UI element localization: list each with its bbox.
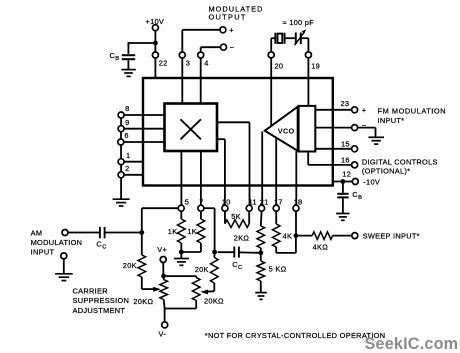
resistor 1K (B)	[197, 219, 205, 243]
wire chain pins 9-6	[120, 132, 122, 139]
capacitor CC (mid)	[218, 251, 234, 253]
resistor 5K	[225, 220, 249, 228]
wire +10V to pin22	[154, 31, 156, 52]
wire out- to pin 4	[201, 46, 221, 48]
svg-text:6: 6	[124, 131, 128, 140]
wire crystal to variable capacitor	[285, 37, 296, 39]
pin 22 terminal	[152, 52, 158, 58]
svg-text:15: 15	[341, 140, 350, 149]
wire pin18 down	[295, 211, 297, 235]
wire pin21 down	[260, 211, 263, 226]
svg-text:1K: 1K	[187, 227, 197, 236]
wire pin5 down	[180, 211, 182, 219]
svg-text:8: 8	[125, 104, 129, 113]
wire pin11 down	[248, 211, 250, 224]
crystal Y1	[274, 33, 276, 44]
resistor 20K (right)	[213, 252, 215, 258]
wire VCO corner to pin 18	[295, 151, 297, 205]
wire pin7 down	[200, 211, 202, 219]
svg-text:2KΩ: 2KΩ	[234, 234, 250, 243]
svg-text:V+: V+	[157, 245, 167, 254]
wire multiplier to pin 7	[200, 151, 202, 205]
resistor 4K&#937; (sweep)	[312, 232, 332, 240]
wiper arrow into left pot	[142, 288, 154, 290]
ground (1K)	[174, 259, 189, 266]
capacitor CB (left)	[122, 54, 135, 56]
potentiometer 20K&#937; (left)	[163, 276, 165, 280]
wire AM return to ground	[63, 259, 65, 274]
ground (left chain)	[113, 199, 130, 206]
svg-text:4KΩ: 4KΩ	[313, 243, 329, 252]
pin 3 terminal	[179, 52, 185, 58]
wire CC to junction	[105, 232, 142, 234]
V- terminal	[162, 322, 168, 328]
svg-text:12: 12	[342, 169, 351, 178]
multiplier block	[165, 104, 218, 152]
wire pin 12	[333, 181, 353, 183]
VCO output block	[299, 106, 316, 152]
svg-text:SWEEP INPUT*: SWEEP INPUT*	[363, 232, 420, 241]
FM minus terminal	[352, 125, 358, 131]
svg-text:20KΩ: 20KΩ	[133, 297, 153, 306]
svg-text:≈ 100 pF: ≈ 100 pF	[283, 18, 315, 27]
wire pin 6 to multiplier	[124, 141, 165, 143]
wire multiplier to pin 5	[180, 151, 182, 205]
svg-text:INPUT: INPUT	[31, 248, 55, 257]
svg-text:20KΩ: 20KΩ	[204, 296, 224, 305]
wire block to FM minus	[316, 127, 352, 129]
svg-text:SUPPRESSION: SUPPRESSION	[73, 296, 130, 305]
svg-text:DIGITAL CONTROLS: DIGITAL CONTROLS	[362, 158, 438, 167]
svg-text:SeekIC.com: SeekIC.com	[365, 335, 459, 353]
wire pot bottoms	[163, 300, 166, 309]
wire 2K to junction	[260, 248, 262, 253]
IC U1 outline	[143, 78, 333, 186]
svg-text:23: 23	[341, 99, 350, 108]
wire to 4K ohm	[296, 235, 312, 237]
svg-text:FM MODULATION: FM MODULATION	[378, 107, 447, 116]
wire multiplier to pin 10	[217, 138, 225, 140]
wire VCO apex to pin 21	[261, 132, 263, 206]
node: pin7/CC/20K junction	[212, 250, 217, 255]
potentiometer 20K&#937; (right)	[192, 278, 200, 301]
svg-text:ADJUSTMENT: ADJUSTMENT	[73, 306, 126, 315]
svg-text:5K: 5K	[231, 212, 241, 221]
ground (AM input)	[55, 274, 73, 281]
wire 1K A to ground junction	[180, 243, 182, 252]
SWEEP INPUT terminal	[352, 233, 358, 239]
svg-text:22: 22	[159, 59, 168, 68]
wire pin20 to VCO	[270, 58, 272, 78]
node: 2K/CC/5K junction	[258, 250, 263, 255]
svg-text:AM: AM	[31, 228, 43, 237]
node: CC/pin5/20K junction	[139, 230, 144, 235]
svg-text:−: −	[230, 43, 235, 52]
svg-text:20K: 20K	[123, 261, 137, 270]
svg-text:4: 4	[204, 59, 208, 68]
wire FM minus to ground	[358, 127, 376, 129]
svg-text:B: B	[358, 195, 362, 201]
resistor 5 K&#937;	[260, 253, 262, 261]
svg-text:+: +	[229, 26, 234, 35]
svg-text:C: C	[102, 244, 107, 250]
wire pin3 to multiplier	[181, 58, 183, 104]
node: sweep junction	[294, 233, 299, 238]
wire 4K to pin18 branch	[275, 247, 277, 253]
wire block to pin 15	[316, 148, 352, 150]
wire to sweep terminal	[333, 235, 352, 237]
svg-text:MODULATION: MODULATION	[31, 238, 83, 247]
ground (CB left)	[121, 70, 136, 77]
resistor 4K	[272, 224, 280, 247]
svg-text:−: −	[362, 121, 367, 130]
wire pin19 to block	[307, 58, 309, 78]
ground (5K)	[255, 293, 267, 300]
wire pin 1 stub	[124, 161, 143, 163]
wire to ground	[180, 252, 182, 258]
svg-text:*NOT FOR CRYSTAL-CONTROLLED OP: *NOT FOR CRYSTAL-CONTROLLED OPERATION	[205, 331, 386, 340]
svg-text:2: 2	[125, 164, 129, 173]
wire 5K to ground	[260, 281, 262, 292]
resistor 2K&#937;	[257, 226, 265, 248]
wire pin5 left	[142, 207, 178, 209]
wire pin 8 to multiplier	[124, 114, 164, 116]
svg-text:INPUT*: INPUT*	[378, 116, 405, 125]
svg-text:5 KΩ: 5 KΩ	[269, 265, 287, 274]
pin 19 terminal	[305, 52, 311, 58]
wire pin20 up	[270, 38, 272, 52]
wire pin 2 stub	[124, 174, 143, 176]
wire V+ down	[162, 263, 164, 277]
wire pin4 to multiplier	[200, 58, 202, 104]
capacitor CB (right)	[337, 193, 348, 195]
wire varcap to pin 19	[301, 37, 309, 39]
wire junction to CB	[342, 182, 344, 193]
wire pin7 right	[204, 207, 215, 209]
svg-text:1: 1	[126, 151, 130, 160]
ground (CB right)	[336, 214, 350, 221]
svg-text:5: 5	[185, 197, 189, 206]
wire pin22 into IC	[154, 58, 156, 78]
node: junction +10V/CB	[153, 41, 158, 46]
svg-text:9: 9	[125, 118, 129, 127]
wire pin10 down	[224, 211, 226, 224]
wire VCO to pin 17	[275, 138, 277, 206]
svg-text:3: 3	[186, 59, 190, 68]
svg-text:V-: V-	[159, 330, 167, 339]
wire AM input to CC	[68, 232, 99, 234]
node: V+/pots junction	[161, 274, 166, 279]
svg-text:4K: 4K	[283, 232, 293, 241]
node: pin12/CB junction	[341, 179, 346, 184]
wire chain pins 8-9	[120, 118, 122, 126]
AM return terminal	[61, 253, 67, 259]
svg-text:+: +	[362, 106, 367, 115]
wire block to pin 16	[307, 152, 309, 165]
variable capacitor ~100pF	[295, 33, 297, 45]
wire CB to ground	[342, 198, 344, 213]
svg-text:20: 20	[275, 62, 284, 71]
resistor 1K (A)	[178, 219, 186, 243]
wire block to pin 23	[316, 109, 352, 111]
resistor 20K (left)	[138, 255, 146, 277]
svg-text:(OPTIONAL)*: (OPTIONAL)*	[362, 166, 410, 175]
wire CB to ground	[127, 60, 129, 69]
wire junction to 20K left	[141, 233, 143, 256]
svg-text:20K: 20K	[195, 265, 209, 274]
wire junction to right pot	[164, 275, 197, 277]
output + terminal	[220, 27, 226, 33]
svg-text:B: B	[115, 56, 119, 62]
svg-text:CARRIER: CARRIER	[73, 287, 108, 296]
op-amp/VCO triangle	[265, 107, 298, 151]
wire 20K left to wiper arrow	[141, 277, 143, 289]
wire to capacitor CB	[128, 42, 155, 44]
wire chain pins 6-1	[120, 145, 122, 159]
svg-text:C: C	[238, 265, 243, 271]
svg-text:16: 16	[341, 156, 350, 165]
wire out+ to pin 3	[182, 29, 220, 31]
wire to V-	[164, 309, 166, 322]
svg-text:-10V: -10V	[363, 178, 380, 187]
svg-text:19: 19	[311, 62, 320, 71]
wire 20K right to wiper arrow	[213, 283, 215, 291]
wire multiplier to pin 11	[217, 121, 250, 123]
svg-text:VCO: VCO	[278, 126, 295, 135]
svg-text:1K: 1K	[168, 227, 178, 236]
node: 1K junction	[179, 250, 184, 255]
wire pin2 chain to ground	[120, 178, 122, 199]
capacitor CC (AM)	[99, 227, 101, 238]
pin 4 terminal	[198, 52, 204, 58]
wire pin 9 to multiplier	[124, 128, 164, 130]
wire 1K B to junction	[200, 243, 202, 252]
pin 20 terminal	[268, 52, 274, 58]
wire chain pins 1-2	[120, 165, 122, 172]
svg-text:OUTPUT: OUTPUT	[209, 13, 247, 22]
output - terminal	[221, 44, 227, 50]
ground (FM input)	[368, 137, 384, 144]
wiper arrow into right pot	[207, 290, 215, 293]
wire pin17 down	[275, 211, 277, 224]
